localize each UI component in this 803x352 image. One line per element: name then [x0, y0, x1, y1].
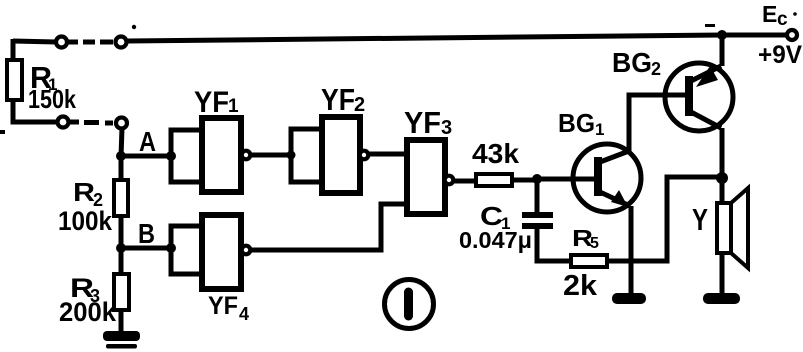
- svg-text:A: A: [139, 126, 156, 157]
- gate YF3: [407, 140, 445, 214]
- svg-text:2k: 2k: [563, 270, 598, 302]
- label R3 200k: [59, 273, 117, 327]
- svg-text:4: 4: [239, 304, 249, 324]
- label YF1: [194, 86, 239, 119]
- resistor R2: [114, 180, 128, 216]
- svg-text:0.047μ: 0.047μ: [459, 227, 532, 253]
- gate YF3 output bubble: [445, 176, 454, 185]
- wire YF4 out to YF3 lower input: [251, 204, 407, 250]
- label A: [139, 126, 156, 157]
- wire node A to R2: [119, 156, 124, 181]
- gate YF1 input bracket: [171, 130, 204, 182]
- gate YF2 output bubble: [360, 151, 369, 160]
- wire speaker to ground: [720, 253, 725, 294]
- label C1 0.047u: [459, 201, 532, 253]
- svg-text:2: 2: [354, 94, 365, 116]
- scan speck marks: [0, 12, 797, 134]
- wire C1 to R5: [537, 229, 572, 261]
- wire YF2 out to YF3 top input: [369, 152, 407, 157]
- wire YF3 out to 43k: [454, 179, 477, 184]
- svg-text:+9V: +9V: [758, 41, 802, 69]
- switch contact terminals on top rail: [56, 37, 127, 48]
- wire R3 to ground: [119, 310, 124, 333]
- label R1 150k: [28, 60, 76, 114]
- label YF3: [404, 105, 452, 140]
- ground below R3: [103, 331, 140, 349]
- label 2k: [563, 270, 598, 302]
- gate YF1 output bubble: [242, 151, 251, 160]
- node A junction: [116, 151, 176, 161]
- figure number circled 1: [385, 280, 434, 329]
- label BG1: [558, 108, 604, 139]
- label +9V: [758, 41, 802, 69]
- svg-text:3: 3: [441, 117, 452, 139]
- resistor R5: [571, 255, 607, 267]
- resistor 43k: [476, 174, 512, 186]
- svg-text:YF: YF: [194, 86, 229, 119]
- wire node to BG1 base: [537, 177, 597, 182]
- wire R5 feedback to BG2 collector node: [607, 177, 717, 261]
- svg-text:2: 2: [651, 59, 661, 79]
- label BG2: [612, 47, 661, 79]
- wire node to speaker: [720, 178, 725, 204]
- wire YF1 out to YF2 in: [251, 151, 296, 160]
- svg-text:BG: BG: [612, 47, 652, 78]
- svg-text:R: R: [73, 177, 95, 207]
- label Y: [692, 202, 708, 237]
- capacitor C1: [522, 181, 553, 226]
- wire R1 bottom to lower switch: [13, 99, 58, 122]
- wire BG1 emitter to ground: [629, 206, 634, 294]
- svg-text:200k: 200k: [59, 297, 117, 327]
- label YF4: [208, 292, 249, 324]
- svg-text:Y: Y: [692, 202, 708, 237]
- node B junction: [116, 243, 176, 253]
- gate YF4: [202, 215, 241, 289]
- svg-text:BG: BG: [558, 108, 595, 138]
- gate YF2 input bracket: [291, 129, 324, 182]
- svg-text:YF: YF: [404, 105, 441, 140]
- svg-text:YF: YF: [208, 292, 238, 320]
- svg-text:5: 5: [590, 235, 599, 252]
- svg-text:150k: 150k: [28, 84, 76, 114]
- label Ec: [762, 1, 788, 30]
- wire R2 to node B: [119, 216, 124, 248]
- wire BG2 emitter to top rail: [720, 35, 725, 66]
- wire node B to R3: [119, 248, 124, 275]
- label R2 100k: [58, 177, 113, 236]
- svg-text:YF: YF: [321, 82, 355, 117]
- ground below speaker: [703, 293, 740, 304]
- gate YF1: [202, 118, 241, 192]
- lower switch contacts: [58, 117, 128, 129]
- gate YF4 input bracket: [171, 226, 204, 274]
- wire BG1 collector to BG2 base: [629, 95, 689, 151]
- resistor R1: [7, 60, 22, 100]
- node BG2 collector / speaker / feedback: [716, 172, 728, 184]
- gate YF4 output bubble: [242, 246, 251, 255]
- label B: [138, 218, 155, 249]
- svg-text:E: E: [762, 1, 777, 27]
- svg-text:1: 1: [595, 120, 604, 139]
- transistor BG2: [665, 63, 733, 131]
- label YF2: [321, 82, 365, 117]
- wire lower switch down to node A: [121, 128, 122, 157]
- ground below BG1: [612, 293, 646, 304]
- wire BG2 collector down to speaker node: [720, 128, 725, 178]
- svg-text:100k: 100k: [58, 206, 113, 236]
- resistor R3: [114, 274, 129, 310]
- wire 43k to node: [512, 178, 537, 183]
- speaker Y: [717, 188, 748, 268]
- Ec terminal: [787, 30, 797, 40]
- svg-text:B: B: [138, 218, 155, 249]
- svg-text:1: 1: [228, 96, 239, 117]
- svg-text:43k: 43k: [472, 138, 519, 169]
- svg-text:c: c: [777, 9, 788, 30]
- transistor BG1: [573, 144, 641, 212]
- node 43k / C1 / BG1 base: [532, 174, 542, 184]
- label R5: [572, 225, 599, 252]
- wire left branch to R1: [11, 39, 16, 62]
- label 43k: [472, 138, 519, 169]
- gate YF2: [322, 117, 360, 193]
- node on top rail at BG2 collector: [717, 30, 727, 40]
- wire top supply rail: [13, 35, 788, 42]
